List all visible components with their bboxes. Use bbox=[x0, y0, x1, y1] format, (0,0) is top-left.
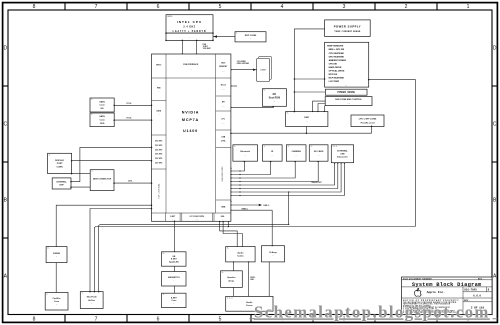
wire SATA HD to MCP bbox=[114, 104, 151, 106]
wire hi amp to audio conns bbox=[268, 262, 270, 297]
svg-text:TEMP, CURRENT SENSE: TEMP, CURRENT SENSE bbox=[334, 31, 361, 33]
svg-text:Conn: Conn bbox=[99, 105, 105, 107]
node EFI ROM pin bbox=[230, 106, 274, 108]
title sheet number bbox=[464, 299, 485, 310]
svg-text:Amps: Amps bbox=[228, 280, 235, 283]
connector EDP CONN bbox=[235, 32, 266, 42]
title notice text bbox=[403, 299, 460, 314]
wire ext usb 2 bbox=[231, 163, 338, 189]
node ext usb pins bbox=[230, 163, 345, 197]
svg-text:LPC 33 MHZ CNTRL: LPC 33 MHZ CNTRL bbox=[190, 216, 205, 218]
svg-text:J. J. J.: J. J. J. bbox=[333, 146, 338, 148]
svg-text:Conn: Conn bbox=[54, 301, 60, 303]
node camera pin bbox=[230, 161, 296, 179]
wire airport smbus1 / SMBus bus line 1 bbox=[94, 227, 415, 292]
node eu4 dot bbox=[239, 195, 240, 196]
svg-text:Bluetooth: Bluetooth bbox=[240, 150, 250, 153]
node FW wire pin bbox=[151, 204, 153, 206]
svg-text:Boot ROM: Boot ROM bbox=[269, 96, 280, 99]
svg-text:.. ..: .. .. bbox=[347, 102, 350, 104]
node SMB bus junction bbox=[228, 226, 229, 227]
node DP wire pins bbox=[71, 160, 152, 162]
chipset internal partitions bbox=[152, 54, 232, 221]
wire temp sensors to SMBus riser bbox=[369, 80, 416, 227]
svg-text:CAMERA: CAMERA bbox=[292, 150, 302, 153]
wire ext disp to MDM bbox=[71, 186, 90, 188]
wire airport smbus2 / SMBus bus line 2 bbox=[99, 224, 289, 291]
svg-text:D: D bbox=[3, 46, 7, 52]
svg-text:USB 1..: USB 1.. bbox=[263, 205, 270, 207]
node bluetooth pin bbox=[230, 161, 245, 172]
svg-text:Speaker: Speaker bbox=[227, 277, 235, 279]
wire HDA 1 bbox=[220, 221, 238, 246]
chipset U1400 NVIDIA MCP79 outline bbox=[152, 54, 231, 221]
svg-text:TEMP SENSORS: TEMP SENSORS bbox=[327, 46, 344, 48]
label SO-DIMM DDR3 bbox=[237, 61, 249, 65]
connector DISPLAY PORT bbox=[48, 153, 72, 173]
power sense block bbox=[325, 89, 367, 95]
svg-text:1 PCI-E..: 1 PCI-E.. bbox=[126, 103, 133, 105]
svg-text:6: 6 bbox=[157, 316, 160, 322]
connector E-NET bbox=[162, 293, 187, 307]
node cam bus dot bbox=[239, 177, 240, 178]
svg-text:MEM + GPU DIE: MEM + GPU DIE bbox=[329, 49, 345, 51]
connector MDM LVDS bbox=[90, 170, 114, 191]
svg-text:DDC HPD: DDC HPD bbox=[155, 141, 163, 143]
node codec-amps bbox=[233, 261, 234, 262]
wire codec to audio conns bbox=[248, 262, 250, 297]
external USB ports bbox=[331, 145, 353, 163]
svg-text:EXTERNAL: EXTERNAL bbox=[337, 150, 348, 153]
svg-text:Mini PCI-E: Mini PCI-E bbox=[87, 297, 98, 299]
svg-text:Mixed: Mixed bbox=[221, 85, 226, 87]
svg-text:PortUU,serial: PortUU,serial bbox=[361, 121, 375, 124]
node sd bus dot bbox=[239, 181, 240, 182]
svg-text:EXTERNAL: EXTERNAL bbox=[56, 181, 67, 184]
wire mixed cell stub bbox=[231, 85, 237, 87]
svg-text:POWER_SENSE: POWER_SENSE bbox=[337, 92, 355, 94]
CPU FSB pin row bbox=[166, 33, 213, 40]
audio connectors bbox=[226, 296, 273, 311]
svg-text:DDC HPD: DDC HPD bbox=[155, 158, 163, 160]
svg-text:6: 6 bbox=[157, 4, 160, 10]
audio codec bbox=[226, 247, 255, 262]
watermark bbox=[249, 302, 497, 321]
svg-text:SMB: SMB bbox=[221, 207, 226, 209]
EMC controller bbox=[286, 112, 328, 127]
svg-text:C: C bbox=[3, 122, 7, 128]
svg-text:CONN: CONN bbox=[57, 167, 64, 169]
svg-text:FAN CONN AND CONTROL: FAN CONN AND CONTROL bbox=[335, 98, 362, 101]
svg-text:5: 5 bbox=[219, 4, 222, 10]
wire SMB cell to bus bbox=[227, 221, 229, 226]
node hi amp feed pin bbox=[272, 245, 273, 246]
wire DP to MCP bbox=[72, 160, 152, 162]
node MCP usb port pins bbox=[230, 168, 231, 211]
svg-text:MAGNETICS: MAGNETICS bbox=[168, 276, 180, 279]
wire power supply feed bbox=[294, 29, 324, 112]
svg-text:Hi Amp: Hi Amp bbox=[269, 251, 277, 254]
node DP-MDM junction bbox=[71, 173, 73, 175]
svg-text:1 DP + LVDS DUAL: 1 DP + LVDS DUAL bbox=[158, 183, 161, 198]
connector LPC-SPI CONN bbox=[351, 115, 384, 127]
chipset right pin cell labels bbox=[219, 63, 228, 209]
label LVDS bbox=[128, 181, 133, 183]
svg-text:ODD: ODD bbox=[100, 123, 105, 125]
svg-text:7: 7 bbox=[95, 316, 98, 322]
svg-text:POWER SUPPLY: POWER SUPPLY bbox=[334, 25, 361, 29]
svg-text:USB: USB bbox=[340, 153, 345, 155]
node MCP FSB pins bbox=[182, 53, 198, 55]
node mixed stub pin bbox=[230, 85, 231, 86]
svg-text:D: D bbox=[493, 46, 497, 52]
svg-text:SMBus: SMBus bbox=[242, 208, 248, 210]
arrowhead eDP wire bbox=[214, 35, 218, 38]
svg-text:2: 2 bbox=[405, 4, 408, 10]
wire codec to speaker amps bbox=[232, 262, 234, 271]
wire ext usb 4 bbox=[231, 163, 344, 196]
wire FW PHY to FireWire conn bbox=[55, 263, 57, 293]
svg-text:1333 MHZ: 1333 MHZ bbox=[203, 48, 211, 50]
node temp sensors pin bbox=[324, 78, 370, 80]
svg-text:Schemalaptop.blogspot.com: Schemalaptop.blogspot.com bbox=[254, 302, 490, 321]
node SATA ODD pins bbox=[113, 119, 152, 121]
svg-text:HD: HD bbox=[101, 108, 105, 110]
svg-text:SD CARD: SD CARD bbox=[314, 150, 324, 153]
svg-text:FSB INTERFACE: FSB INTERFACE bbox=[183, 63, 199, 66]
svg-text:Conns: Conns bbox=[246, 305, 253, 307]
node ext disp pin2 bbox=[70, 186, 72, 188]
magnetics bbox=[162, 272, 187, 286]
SD card reader bbox=[309, 145, 328, 161]
node ir bus dot bbox=[239, 174, 240, 175]
svg-text:NVIDIA: NVIDIA bbox=[182, 111, 200, 115]
svg-text:DDC HPD: DDC HPD bbox=[155, 149, 163, 151]
svg-text:GPU HEATSINK: GPU HEATSINK bbox=[329, 55, 345, 58]
chipset center label bbox=[182, 63, 200, 133]
svg-text:System Block Diagram: System Block Diagram bbox=[412, 282, 482, 288]
svg-text:3: 3 bbox=[343, 4, 346, 10]
wire IR usb bbox=[231, 161, 271, 174]
svg-text:INTEL CPU: INTEL CPU bbox=[177, 20, 202, 24]
wire EMC pin to fan conn 3 bbox=[323, 106, 325, 112]
node ext disp pins bbox=[70, 147, 152, 183]
wire magnetics to conn bbox=[174, 286, 176, 293]
wire MCP LPC to SPI conn bbox=[231, 126, 372, 133]
svg-text:Conn: Conn bbox=[171, 300, 177, 302]
svg-text:AppleLAN: AppleLAN bbox=[169, 261, 179, 264]
svg-text:OPTICAL DRIVE: OPTICAL DRIVE bbox=[329, 70, 345, 73]
svg-text:FireWire: FireWire bbox=[53, 298, 62, 300]
wire power sense left bbox=[294, 91, 325, 93]
wire amps to audio conns bbox=[232, 287, 234, 296]
label sata odd x1 bbox=[126, 118, 133, 120]
title part number bbox=[464, 288, 489, 297]
chipset bottom pin cell labels bbox=[170, 215, 225, 221]
power supply unit bbox=[325, 20, 371, 37]
svg-text:1: 1 bbox=[467, 4, 470, 10]
svg-text:A.0.0: A.0.0 bbox=[473, 295, 481, 298]
node hiamp-conns bbox=[269, 296, 270, 297]
wire EMC pin to fan conn 2 bbox=[318, 104, 325, 112]
node nest junction bbox=[288, 191, 289, 225]
label spkr line bbox=[250, 277, 256, 281]
label FSB 1333MHZ bbox=[203, 44, 211, 50]
svg-text:Audio: Audio bbox=[246, 301, 253, 304]
svg-text:LCD TEMP: LCD TEMP bbox=[329, 81, 340, 83]
wire ext disp riser bbox=[71, 147, 152, 181]
wire smbus to hi amp bbox=[231, 208, 272, 245]
wire SATA ODD to MCP bbox=[114, 119, 151, 121]
camera module bbox=[286, 145, 306, 161]
wire camera usb bbox=[231, 161, 295, 178]
svg-text:2.4 GHZ: 2.4 GHZ bbox=[183, 26, 195, 29]
label sata hd x1 bbox=[126, 103, 133, 105]
svg-text:E-NET: E-NET bbox=[171, 259, 178, 261]
node enet pin bbox=[174, 221, 176, 253]
svg-text:EDP CONN: EDP CONN bbox=[245, 35, 257, 37]
wire bluetooth usb bbox=[231, 161, 244, 171]
node EMC bottom junction bbox=[306, 132, 308, 134]
title block bbox=[249, 277, 497, 321]
svg-text:AMBIENT INTAKE: AMBIENT INTAKE bbox=[329, 59, 347, 62]
external display block bbox=[52, 178, 71, 189]
arrowhead DIMM wire bbox=[253, 69, 256, 71]
connector SATA ODD bbox=[90, 113, 114, 127]
svg-text:MCP7A: MCP7A bbox=[182, 118, 199, 122]
wire CPU to MCP FSB left bbox=[181, 40, 183, 54]
svg-text:E-NET: E-NET bbox=[170, 216, 175, 218]
svg-text:DISP: DISP bbox=[59, 185, 64, 187]
connector SATA HD bbox=[90, 98, 114, 112]
wire sd card usb bbox=[231, 161, 318, 181]
svg-text:PORT: PORT bbox=[57, 163, 64, 165]
wire HDA 2 bbox=[223, 221, 242, 246]
wire MCP to FW PHY bbox=[56, 205, 151, 246]
svg-text:8: 8 bbox=[33, 4, 36, 10]
temp sensors block bbox=[325, 42, 369, 87]
node power sense junction bbox=[294, 91, 296, 93]
wire MCP to EFI ROM bbox=[231, 106, 273, 107]
svg-text:SATA: SATA bbox=[99, 115, 105, 118]
svg-text:2 SO-DIMM: 2 SO-DIMM bbox=[237, 61, 246, 63]
svg-text:MCP HEATSINK: MCP HEATSINK bbox=[329, 77, 345, 80]
wire EMC bottom to LPC line bbox=[305, 127, 307, 134]
node sd pin bbox=[230, 161, 319, 182]
svg-text:EMC: EMC bbox=[304, 117, 309, 119]
EFI boot ROM bbox=[262, 89, 286, 107]
wire MCP E-NET down bbox=[174, 221, 176, 252]
wire airport pcie bbox=[90, 209, 152, 292]
svg-text:4: 4 bbox=[281, 4, 284, 10]
svg-text:USB 2.0 10 PORTS: USB 2.0 10 PORTS bbox=[222, 166, 224, 182]
connector FireWire bbox=[45, 293, 68, 311]
connector Mini PCI-E AirPort bbox=[80, 292, 103, 309]
ethernet PHY GB E-NET bbox=[162, 252, 187, 266]
node DIMM wire pin bbox=[230, 69, 232, 71]
svg-text:DEBUG PORT: DEBUG PORT bbox=[312, 182, 322, 184]
svg-text:051-7045: 051-7045 bbox=[464, 288, 477, 291]
svg-text:AirPort: AirPort bbox=[88, 299, 95, 302]
chipset left pin cell labels bbox=[155, 65, 163, 199]
wire temp sensors left bbox=[294, 78, 324, 80]
svg-text:HARD DRIVE: HARD DRIVE bbox=[329, 66, 342, 69]
node LVDS pins bbox=[113, 182, 152, 184]
wire MDM LVDS to MCP bbox=[114, 182, 152, 184]
fan conn and control bbox=[325, 97, 372, 106]
bluetooth module bbox=[233, 145, 258, 161]
svg-text:Apple Inc.: Apple Inc. bbox=[427, 290, 446, 294]
svg-text:1 PCI-E..: 1 PCI-E.. bbox=[126, 118, 133, 120]
svg-text:Conn: Conn bbox=[99, 120, 105, 122]
svg-text:LVDS..: LVDS.. bbox=[128, 181, 133, 183]
hi amp bbox=[262, 246, 285, 262]
svg-text:SPKR/..: SPKR/.. bbox=[250, 277, 256, 279]
svg-text:EFI: EFI bbox=[273, 94, 277, 96]
svg-text:LINE..: LINE.. bbox=[250, 279, 255, 281]
svg-text:GPIOs: GPIOs bbox=[156, 65, 162, 67]
svg-text:LGA775 + PENRYN: LGA775 + PENRYN bbox=[173, 30, 207, 33]
svg-text:5: 5 bbox=[219, 316, 222, 322]
firewire PHY FW343 bbox=[46, 247, 67, 263]
svg-text:DIMM: DIMM bbox=[260, 70, 266, 72]
wire EMC pin to fan conn 1 bbox=[313, 101, 326, 111]
svg-text:U0700: U0700 bbox=[167, 16, 172, 18]
wire usb1 stub with arrow bbox=[231, 204, 270, 207]
wire CPU FSB to EDP CONN bbox=[213, 36, 235, 38]
IR receiver bbox=[262, 145, 282, 161]
label debug port bbox=[312, 182, 322, 184]
svg-text:Dataacceler: Dataacceler bbox=[337, 155, 348, 158]
node temp feed junction bbox=[294, 78, 296, 112]
wire DP corner to MDM bbox=[72, 173, 91, 175]
node CPU FSB corners bbox=[165, 32, 214, 41]
svg-text:DDR3-1067MHZ: DDR3-1067MHZ bbox=[237, 63, 249, 65]
node eu2 dot bbox=[239, 188, 240, 189]
apple logo bbox=[414, 288, 421, 296]
memory DIMM modules bbox=[257, 56, 272, 81]
svg-text:SIZE DOCUMENT NUMBER: SIZE DOCUMENT NUMBER bbox=[403, 278, 432, 280]
svg-text:REV ..: REV .. bbox=[478, 278, 485, 280]
node HDA pins bbox=[219, 221, 243, 247]
wire enet to magnetics bbox=[174, 266, 176, 271]
svg-text:DISPLAY: DISPLAY bbox=[55, 159, 64, 162]
node eu1 dot bbox=[239, 184, 240, 185]
wire MCP to DIMM bbox=[231, 69, 257, 71]
svg-text:CPU HEATSINK: CPU HEATSINK bbox=[329, 52, 345, 55]
svg-text:7: 7 bbox=[95, 4, 98, 10]
node EMC pin dots bbox=[294, 111, 325, 112]
svg-text:MCP DIE: MCP DIE bbox=[329, 74, 338, 76]
node LPC wire pins bbox=[230, 126, 372, 134]
svg-text:DDC HPD: DDC HPD bbox=[155, 154, 163, 156]
svg-text:E-NET: E-NET bbox=[171, 297, 178, 299]
wire usb line to bus riser bbox=[288, 192, 290, 224]
wire ext usb 3 bbox=[231, 163, 341, 192]
wire CPU to MCP FSB right bbox=[196, 40, 198, 54]
svg-text:C: C bbox=[493, 122, 497, 128]
node eu3 dot bbox=[239, 191, 240, 192]
svg-text:U1400: U1400 bbox=[183, 129, 198, 133]
speaker amps bbox=[221, 271, 243, 288]
svg-text:MDM CONNECTOR: MDM CONNECTOR bbox=[93, 178, 112, 180]
svg-text:MEMORY: MEMORY bbox=[219, 66, 228, 68]
svg-text:J.. J.. J..: J.. J.. J.. bbox=[227, 297, 234, 299]
node codec-conns bbox=[248, 261, 249, 297]
node IR pin bbox=[230, 161, 271, 175]
node SATA HD pins bbox=[113, 105, 152, 107]
svg-text:DDC HPD: DDC HPD bbox=[155, 145, 163, 147]
svg-text:Codec: Codec bbox=[237, 256, 244, 258]
svg-text:SATA: SATA bbox=[99, 100, 105, 103]
svg-text:DDC HPD: DDC HPD bbox=[155, 163, 163, 165]
svg-text:LPC<>SPI CONN: LPC<>SPI CONN bbox=[359, 118, 377, 121]
svg-text:CPU DIE: CPU DIE bbox=[329, 63, 338, 65]
processor U0700 INTEL CPU bbox=[166, 15, 213, 33]
svg-text:Audio: Audio bbox=[237, 251, 244, 254]
node bt bus dot bbox=[239, 170, 240, 171]
svg-text:8: 8 bbox=[33, 316, 36, 322]
svg-text:SATA: SATA bbox=[156, 110, 161, 113]
wire ext usb 1 bbox=[231, 163, 335, 185]
svg-text:FW843: FW843 bbox=[53, 252, 61, 255]
node airport pins bbox=[89, 208, 152, 293]
